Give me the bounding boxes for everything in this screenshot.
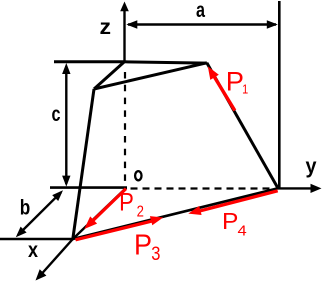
wire member o to A (73, 188, 126, 239)
svg-text:z: z (100, 16, 112, 39)
wire member A to D (73, 188, 278, 239)
svg-text:1: 1 (242, 81, 248, 96)
svg-text:4: 4 (238, 222, 247, 239)
dimension a line (126, 20, 277, 28)
wire top reference line (54, 62, 207, 63)
wire dashed horizontal y projection (131, 187, 274, 189)
svg-text:c: c (52, 103, 61, 126)
x-axis (36, 239, 73, 281)
dimension b line (16, 190, 63, 237)
svg-text:3: 3 (151, 243, 160, 265)
z-axis (120, 2, 129, 62)
svg-text:b: b (20, 197, 31, 220)
y-axis (278, 184, 322, 193)
node o origin label (135, 171, 141, 180)
wire member B to A (73, 89, 94, 239)
svg-text:2: 2 (137, 204, 144, 221)
wire member C to D (207, 63, 278, 189)
wire right vertical line (278, 1, 281, 188)
wire bottom-left line (0, 238, 74, 241)
svg-text:P: P (119, 189, 134, 217)
dimension c line (62, 63, 70, 187)
force P1 arrow (208, 66, 235, 110)
wire member B to C (94, 63, 207, 89)
wire member B to top junction (94, 62, 125, 89)
svg-text:x: x (28, 239, 38, 262)
svg-text:y: y (306, 155, 317, 178)
svg-text:P: P (222, 208, 238, 234)
svg-text:P: P (134, 229, 152, 261)
force P4 arrow (188, 191, 277, 215)
force P2 arrow (84, 189, 126, 229)
z-axis hidden dashed segment (124, 72, 126, 184)
wire wall line (50, 186, 127, 189)
force P3 arrow (76, 216, 164, 240)
svg-text:a: a (196, 0, 205, 22)
